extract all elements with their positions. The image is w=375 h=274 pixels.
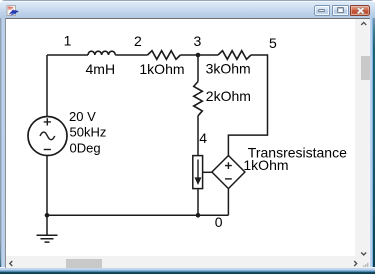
window frame: left outer edge gradient xyxy=(0,18,1,269)
CCVS diamond body xyxy=(212,156,245,189)
horizontal scrollbar track xyxy=(6,256,369,268)
wire: diamond bottom to ground rail xyxy=(227,189,229,216)
caption button: minimize xyxy=(314,5,330,16)
wire: sense to diamond link xyxy=(203,171,212,173)
window frame: title bar gradient xyxy=(0,0,375,18)
svg-text:1kOhm: 1kOhm xyxy=(139,61,184,77)
canvas top divider line xyxy=(5,18,370,19)
wire: sensor bottom to ground rail xyxy=(197,189,199,216)
svg-text:1: 1 xyxy=(64,33,72,49)
junction dot node 3 xyxy=(196,53,201,58)
horizontal scrollbar thumb xyxy=(66,259,102,268)
junction dot node 0 xyxy=(196,213,201,218)
canvas left divider line xyxy=(5,18,6,268)
caption button: close xyxy=(350,5,370,16)
wire: left vertical from node1 down to source xyxy=(46,55,48,117)
CCVS minus sign xyxy=(225,178,232,180)
ground symbol xyxy=(37,215,58,242)
inductor L1 4mH xyxy=(88,51,115,55)
svg-text:2: 2 xyxy=(134,33,142,49)
window frame: left border xyxy=(0,18,5,269)
CCVS sense arrow xyxy=(197,160,199,178)
window frame: right outer edge vertical tone xyxy=(373,18,375,269)
wire: source bottom to ground rail xyxy=(46,155,48,215)
svg-text:2kOhm: 2kOhm xyxy=(206,88,251,104)
AC source V1 circle xyxy=(28,117,67,156)
junction dot ground-left xyxy=(45,213,50,218)
wire: node3 to node5 top right corner xyxy=(228,55,267,156)
wire: node1-node2 segment xyxy=(115,54,147,56)
CCVS sense arrowhead xyxy=(195,177,202,185)
CCVS current sense rectangle xyxy=(193,156,203,189)
left arrow chevron xyxy=(10,261,13,266)
svg-text:50kHz: 50kHz xyxy=(70,124,107,139)
up arrow chevron xyxy=(361,22,366,25)
AC source minus sign xyxy=(44,149,51,151)
wire: node2-node3 segment xyxy=(180,54,218,56)
svg-text:3: 3 xyxy=(194,33,202,49)
svg-text:0Deg: 0Deg xyxy=(70,141,101,156)
resize grip xyxy=(363,263,368,267)
svg-text:3kOhm: 3kOhm xyxy=(206,60,251,76)
resistor R3 2kOhm vertical xyxy=(194,82,203,116)
vertical scrollbar track xyxy=(355,19,369,256)
title bar: app icon xyxy=(6,5,19,18)
caption button: maximize xyxy=(332,5,350,16)
svg-text:1kOhm: 1kOhm xyxy=(243,157,288,173)
vertical scrollbar thumb xyxy=(361,56,370,81)
down arrow chevron xyxy=(361,253,366,256)
resistor R1 1kOhm xyxy=(148,51,181,60)
svg-text:20 V: 20 V xyxy=(69,109,96,124)
CCVS plus sign xyxy=(225,162,232,169)
window frame: outer top edge xyxy=(0,0,375,1)
resistor R2 3kOhm xyxy=(218,51,251,60)
AC source sine wave xyxy=(40,132,55,140)
svg-text:4: 4 xyxy=(199,130,207,146)
AC source plus sign xyxy=(44,118,51,125)
svg-text:4mH: 4mH xyxy=(86,61,116,77)
right arrow chevron xyxy=(354,261,357,266)
window frame: right border xyxy=(369,18,375,269)
wire: top left segment node1 area xyxy=(47,54,88,56)
wire: node3 stem down xyxy=(197,55,199,82)
svg-text:5: 5 xyxy=(269,35,277,51)
window frame: bottom border xyxy=(0,267,375,274)
window frame: top inner highlight xyxy=(1,1,374,2)
wire: bottom ground rail xyxy=(47,214,228,216)
wire: node4 segment down to sensor xyxy=(197,116,199,156)
svg-text:0: 0 xyxy=(215,214,223,230)
